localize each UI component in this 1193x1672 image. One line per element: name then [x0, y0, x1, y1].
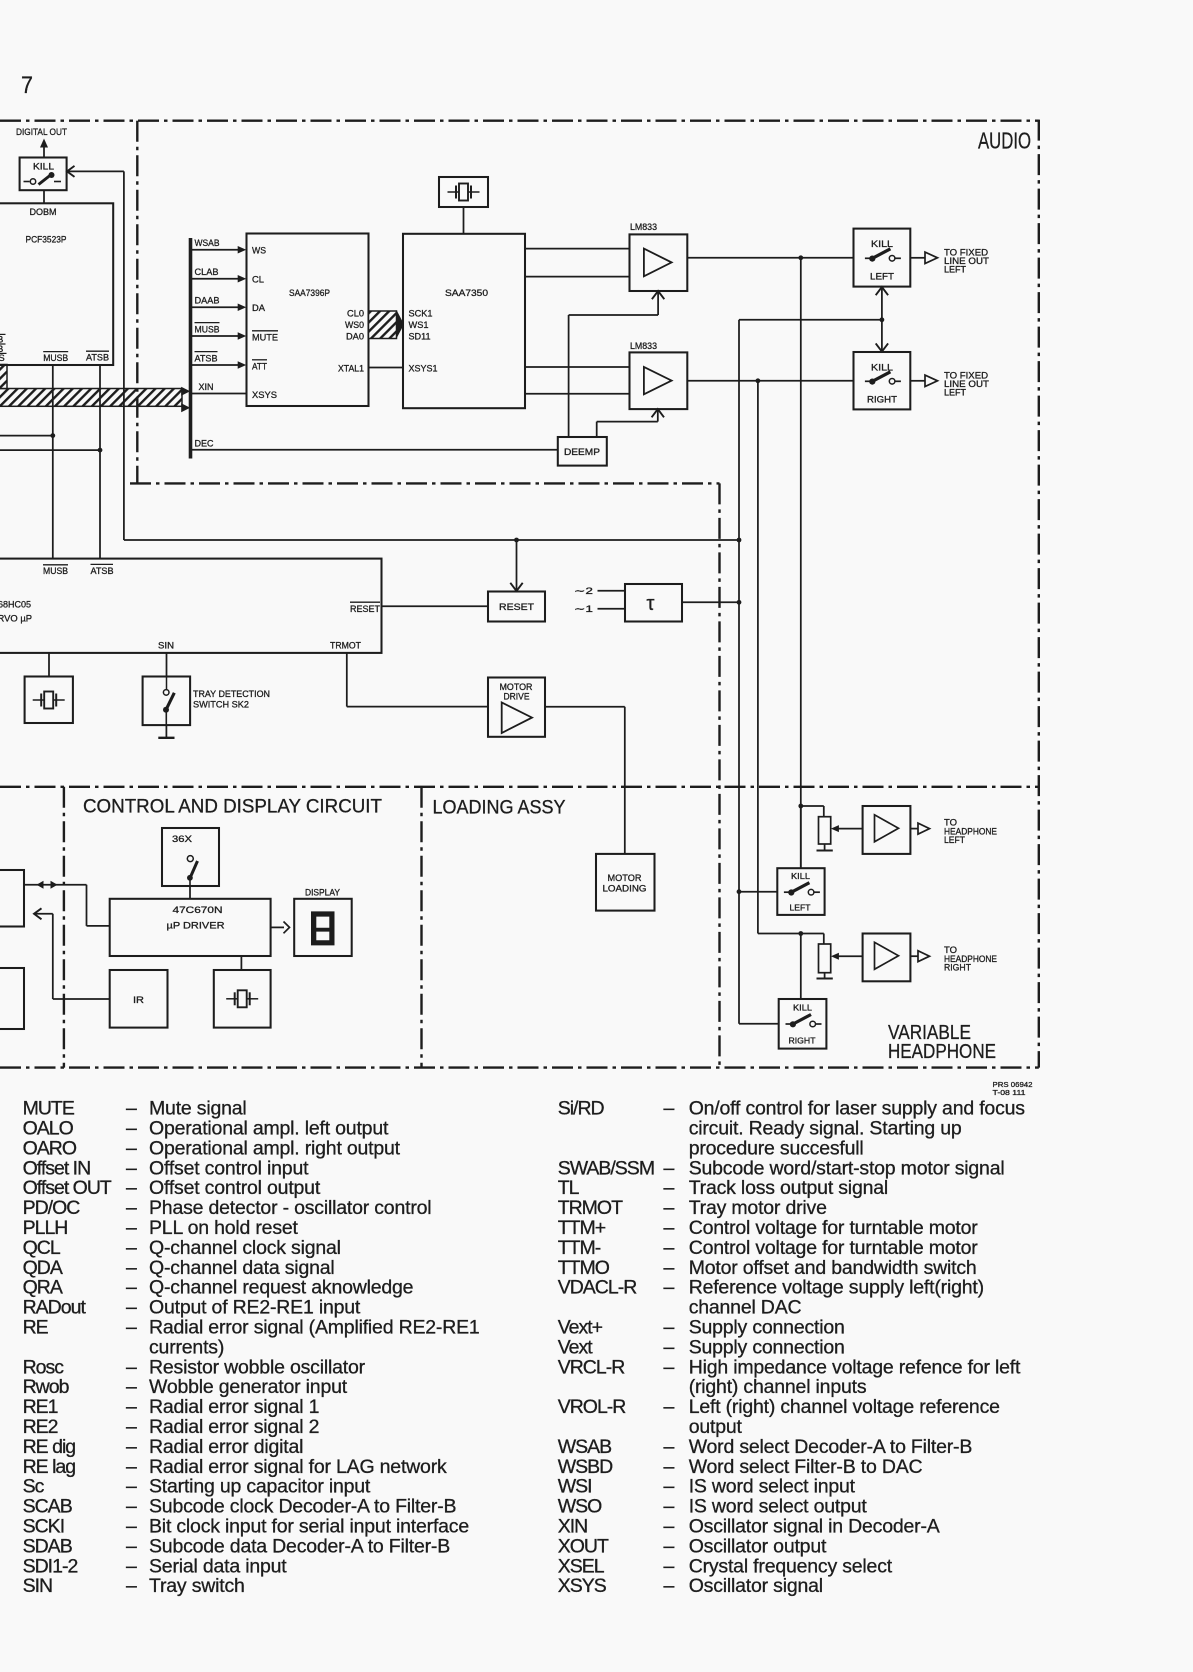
svg-text:∼2: ∼2 — [574, 586, 593, 597]
junction MUSB stub — [50, 433, 55, 438]
wire XTAL1 to XSYS1 — [369, 367, 404, 369]
svg-text:Reference voltage supply left(: Reference voltage supply left(right) — [689, 1277, 984, 1299]
section border AUDIO left vertical — [136, 121, 138, 484]
svg-text:CL0: CL0 — [347, 308, 364, 319]
wire to servo crystal — [48, 653, 50, 677]
junction left line to headphone — [798, 255, 803, 260]
svg-text:Starting up capacitor input: Starting up capacitor input — [149, 1476, 371, 1498]
svg-text:LM833: LM833 — [630, 222, 657, 233]
svg-text:(right) channel inputs: (right) channel inputs — [689, 1376, 867, 1398]
svg-text:Subcode clock Decoder-A to Fil: Subcode clock Decoder-A to Filter-B — [149, 1496, 456, 1518]
svg-text:VROL-R: VROL-R — [558, 1396, 627, 1418]
svg-text:LEFT: LEFT — [790, 903, 811, 913]
svg-text:RIGHT: RIGHT — [789, 1036, 816, 1046]
wire WSAB into SAA7396P — [192, 249, 240, 251]
svg-text:SDI1-2: SDI1-2 — [23, 1555, 78, 1577]
svg-text:QDA: QDA — [23, 1257, 63, 1279]
svg-text:SCK1: SCK1 — [409, 308, 433, 319]
block DEEMP de-emphasis — [558, 437, 607, 466]
svg-text:Q-channel data signal: Q-channel data signal — [149, 1257, 335, 1279]
junction kill link — [880, 317, 885, 322]
svg-text:–: – — [664, 1157, 675, 1179]
svg-text:XSYS: XSYS — [252, 390, 277, 401]
svg-text:–: – — [664, 1237, 675, 1259]
switch KILL RIGHT headphone — [800, 934, 802, 1000]
wire deemp control to left amp — [568, 315, 570, 437]
switch KILL RIGHT fixed line out — [854, 352, 911, 409]
seven-segment digit 8 — [311, 911, 335, 945]
bus arrowheads into XIN line — [181, 387, 190, 396]
svg-text:XIN: XIN — [558, 1516, 588, 1538]
block MOTOR LOADING — [596, 854, 655, 911]
wire reset control horizontal — [124, 539, 739, 541]
wire IR to keyboard with arrow — [34, 908, 42, 919]
wire DAC right out 2 — [525, 393, 630, 395]
svg-text:–: – — [126, 1376, 137, 1398]
svg-text:–: – — [664, 1098, 675, 1120]
bus hatched horizontal (decoder data) — [0, 389, 182, 407]
svg-text:SIN: SIN — [23, 1575, 53, 1597]
svg-text:–: – — [126, 1516, 137, 1538]
svg-text:–: – — [126, 1436, 137, 1458]
svg-text:SAA7396P: SAA7396P — [289, 288, 330, 299]
svg-text:Left (right) channel voltage r: Left (right) channel voltage reference — [689, 1396, 1000, 1418]
wire ATSB vertical — [99, 365, 101, 559]
switch KILL digital out — [20, 158, 67, 191]
svg-text:XSYS: XSYS — [558, 1575, 607, 1597]
svg-text:RESET: RESET — [350, 604, 380, 615]
chip PCF3523P — [0, 203, 113, 365]
wire vertical A into KILL LEFT headphone — [737, 889, 742, 894]
svg-text:Tray motor drive: Tray motor drive — [689, 1197, 827, 1219]
svg-text:Offset OUT: Offset OUT — [23, 1177, 112, 1199]
svg-text:XSYS1: XSYS1 — [409, 363, 438, 374]
svg-text:RE1: RE1 — [23, 1396, 58, 1418]
svg-text:–: – — [126, 1496, 137, 1518]
svg-text:–: – — [126, 1098, 137, 1120]
svg-text:CLAB: CLAB — [195, 267, 219, 278]
wire crystal to SAA7350 — [463, 207, 465, 234]
wire ATSB into SAA7396P — [192, 364, 240, 366]
svg-text:–: – — [126, 1535, 137, 1557]
svg-text:XIN: XIN — [199, 382, 214, 393]
svg-text:LEFT: LEFT — [944, 388, 966, 398]
mechanical link dashed (ganged pots) — [846, 829, 848, 957]
bus hatched SAA7396P to SAA7350 — [369, 311, 397, 339]
svg-text:–: – — [126, 1575, 137, 1597]
svg-text:Radial error signal 1: Radial error signal 1 — [149, 1396, 319, 1418]
svg-text:CONTROL AND DISPLAY CIRCUIT: CONTROL AND DISPLAY CIRCUIT — [83, 796, 382, 818]
svg-text:Rwob: Rwob — [23, 1376, 70, 1398]
svg-text:Radial error signal (Amplified: Radial error signal (Amplified RE2-RE1 — [149, 1317, 480, 1339]
svg-text:TTMO: TTMO — [558, 1257, 610, 1279]
svg-text:–: – — [664, 1535, 675, 1557]
svg-text:MOTOR: MOTOR — [500, 682, 533, 692]
svg-text:Bit clock input for serial inp: Bit clock input for serial input interfa… — [149, 1516, 469, 1538]
svg-text:WSAB: WSAB — [195, 238, 220, 249]
svg-text:On/off control for laser suppl: On/off control for laser supply and focu… — [689, 1098, 1026, 1120]
wire servo RESET to reset box — [382, 605, 489, 607]
svg-text:Oscillator signal in Decoder-A: Oscillator signal in Decoder-A — [689, 1516, 940, 1538]
svg-text:Word select Filter-B to DAC: Word select Filter-B to DAC — [689, 1456, 923, 1478]
svg-text:SAA7350: SAA7350 — [445, 288, 488, 299]
svg-text:SCKI: SCKI — [23, 1516, 65, 1538]
svg-text:RE: RE — [23, 1317, 49, 1339]
wire TRMOT to motor drive — [346, 653, 348, 707]
svg-text:–: – — [126, 1137, 137, 1159]
svg-text:LEFT: LEFT — [870, 272, 894, 283]
svg-text:–: – — [664, 1177, 675, 1199]
svg-text:Vext+: Vext+ — [558, 1317, 603, 1339]
ground tray switch — [165, 725, 167, 738]
svg-text:Mute signal: Mute signal — [149, 1098, 247, 1120]
svg-text:DISPLAY: DISPLAY — [305, 887, 341, 898]
svg-text:DEEMP: DEEMP — [564, 447, 600, 457]
wire kill control vertical — [123, 171, 125, 540]
junction ATSB stub — [98, 448, 103, 453]
svg-text:MUSB: MUSB — [43, 353, 68, 364]
svg-text:LEFT: LEFT — [944, 265, 966, 275]
svg-text:–: – — [126, 1416, 137, 1438]
svg-text:currents): currents) — [149, 1336, 224, 1358]
svg-text:–: – — [664, 1356, 675, 1378]
svg-text:IR: IR — [133, 995, 144, 1006]
svg-text:DEC: DEC — [195, 439, 214, 450]
wire DAAB into SAA7396P — [192, 306, 240, 308]
wire to pot right — [823, 934, 825, 945]
op-amp headphone right — [863, 934, 911, 982]
svg-text:–: – — [126, 1277, 137, 1299]
svg-text:µP DRIVER: µP DRIVER — [167, 921, 225, 932]
svg-text:–: – — [664, 1277, 675, 1299]
svg-text:DIGITAL OUT: DIGITAL OUT — [16, 127, 67, 138]
wire motor drive to motor loading — [545, 706, 625, 708]
bus hatched stub up to PCF3523P — [0, 365, 7, 389]
svg-text:Subcode data Decoder-A to Filt: Subcode data Decoder-A to Filter-B — [149, 1535, 450, 1557]
svg-text:TRMOT: TRMOT — [330, 641, 361, 652]
wire KILL to PCF3523P DOBM — [43, 190, 45, 203]
wire arrow into RESET box — [516, 540, 518, 591]
svg-text:SD11: SD11 — [409, 332, 431, 343]
wire deemp control to right amp — [596, 422, 598, 437]
svg-text:SWITCH SK2: SWITCH SK2 — [193, 700, 249, 711]
svg-text:WS1: WS1 — [409, 320, 429, 331]
wire link between KILL LEFT and KILL RIGHT — [881, 287, 883, 352]
svg-text:ATT: ATT — [252, 361, 267, 372]
block keyboard (clipped at page edge, lower) — [0, 968, 24, 1029]
wire DAC right out 1 — [525, 366, 630, 368]
junction reset drop — [514, 538, 519, 543]
svg-text:Operational ampl. left output: Operational ampl. left output — [149, 1118, 389, 1140]
svg-text:Control voltage for turntable: Control voltage for turntable motor — [689, 1237, 979, 1259]
switch 36X — [162, 828, 219, 886]
svg-text:Operational ampl. right output: Operational ampl. right output — [149, 1137, 401, 1159]
svg-text:RE dig: RE dig — [23, 1436, 76, 1458]
svg-text:XTAL1: XTAL1 — [338, 363, 364, 374]
svg-text:–: – — [126, 1177, 137, 1199]
svg-text:WSBD: WSBD — [558, 1456, 613, 1478]
resistor pot right — [819, 944, 831, 973]
svg-text:∼1: ∼1 — [574, 604, 593, 615]
svg-text:47C670N: 47C670N — [173, 905, 223, 916]
svg-text:Serial data input: Serial data input — [149, 1555, 287, 1577]
wire kill link to headphone control vertical — [739, 319, 882, 321]
svg-text:AS: AS — [0, 353, 5, 364]
wire uP driver to control crystal — [240, 956, 242, 970]
svg-text:QCL: QCL — [23, 1237, 61, 1259]
svg-text:RESET: RESET — [499, 602, 535, 612]
svg-text:Si/RD: Si/RD — [558, 1098, 605, 1120]
junction headphone left feed — [798, 804, 803, 809]
svg-text:–: – — [664, 1336, 675, 1358]
svg-text:LM833: LM833 — [630, 341, 657, 352]
op-amp headphone left — [863, 806, 911, 854]
svg-text:–: – — [126, 1356, 137, 1378]
svg-text:–: – — [126, 1257, 137, 1279]
svg-text:Word select Decoder-A to Filte: Word select Decoder-A to Filter-B — [689, 1436, 972, 1458]
svg-text:Output of RE2-RE1 input: Output of RE2-RE1 input — [149, 1297, 361, 1319]
svg-text:output: output — [689, 1416, 743, 1438]
wire stub left to ATSB — [0, 449, 100, 451]
svg-text:–: – — [664, 1575, 675, 1597]
svg-text:RIGHT: RIGHT — [867, 395, 897, 406]
svg-text:–: – — [664, 1317, 675, 1339]
svg-text:WSI: WSI — [558, 1476, 592, 1498]
svg-text:procedure succesfull: procedure succesfull — [689, 1137, 864, 1159]
svg-text:MOTOR: MOTOR — [608, 873, 642, 883]
section border bottom horizontal — [0, 1066, 1039, 1068]
svg-text:–: – — [126, 1476, 137, 1498]
wire DEC to DEEMP — [192, 449, 558, 451]
crystal X1 above SAA7350 — [439, 177, 488, 207]
chip SAA7350 DAC — [403, 234, 525, 408]
svg-text:ATSB: ATSB — [86, 353, 109, 364]
legend left column — [23, 1098, 480, 1598]
bus collector bold vertical line — [189, 238, 193, 459]
svg-text:DA0: DA0 — [346, 332, 364, 343]
svg-text:–: – — [664, 1436, 675, 1458]
svg-text:PLL on hold reset: PLL on hold reset — [149, 1217, 299, 1239]
svg-text:circuit. Ready signal. Startin: circuit. Ready signal. Starting up — [689, 1118, 962, 1140]
svg-text:–: – — [126, 1297, 137, 1319]
svg-text:–: – — [664, 1257, 675, 1279]
output arrow to headphone left — [910, 828, 917, 830]
svg-text:SERVO µP: SERVO µP — [0, 614, 32, 625]
svg-text:Supply connection: Supply connection — [689, 1317, 845, 1339]
svg-text:–: – — [664, 1516, 675, 1538]
svg-text:ATSB: ATSB — [91, 566, 114, 577]
svg-text:–: – — [664, 1476, 675, 1498]
wire MUSB vertical — [52, 365, 54, 559]
svg-text:68HC05: 68HC05 — [0, 600, 31, 611]
svg-text:–: – — [664, 1197, 675, 1219]
svg-text:ATSB: ATSB — [195, 353, 218, 364]
svg-text:XOUT: XOUT — [558, 1535, 609, 1557]
svg-text:Supply connection: Supply connection — [689, 1336, 845, 1358]
svg-text:Q-channel request aknowledge: Q-channel request aknowledge — [149, 1277, 413, 1299]
block IR receiver — [110, 970, 168, 1028]
wire MUSB into SAA7396P — [192, 335, 240, 337]
wire 36X to uP driver — [189, 886, 191, 899]
resistor pot left — [819, 817, 831, 844]
wire DAC left out 1 — [525, 248, 630, 250]
section border vertical between CONTROL and LOADING ASSY — [420, 787, 422, 1068]
svg-text:Subcode word/start-stop motor: Subcode word/start-stop motor signal — [689, 1157, 1005, 1179]
svg-text:Control voltage for turntable: Control voltage for turntable motor — [689, 1217, 979, 1239]
svg-text:–: – — [126, 1555, 137, 1577]
svg-text:–: – — [664, 1456, 675, 1478]
svg-text:CL: CL — [252, 274, 264, 285]
svg-text:KILL: KILL — [793, 1003, 812, 1013]
svg-text:Phase detector - oscillator co: Phase detector - oscillator control — [149, 1197, 431, 1219]
wire digital out arrow — [43, 147, 45, 158]
svg-text:KILL: KILL — [33, 162, 54, 172]
wire DAC left out 2 — [525, 276, 630, 278]
wire control vertical A x=739 — [738, 320, 740, 1024]
svg-text:TRMOT: TRMOT — [558, 1197, 623, 1219]
svg-text:WSAB: WSAB — [558, 1436, 611, 1458]
svg-text:MUTE: MUTE — [23, 1098, 75, 1120]
wire vertical A into KILL RIGHT headphone — [739, 1023, 779, 1025]
svg-text:Offset control output: Offset control output — [149, 1177, 321, 1199]
wire vertical B to right pot row — [758, 933, 824, 935]
output arrow to fixed line out right — [910, 380, 924, 382]
wire KILL feedback from control line — [67, 166, 75, 177]
ground pot left — [824, 844, 826, 850]
block keyboard (clipped at page edge, upper) — [0, 870, 24, 927]
svg-text:WS0: WS0 — [345, 320, 364, 331]
svg-text:RE2: RE2 — [23, 1416, 58, 1438]
svg-text:DAAB: DAAB — [195, 296, 220, 307]
svg-text:Oscillator signal: Oscillator signal — [689, 1575, 823, 1597]
svg-text:PD/OC: PD/OC — [23, 1197, 81, 1219]
svg-text:–: – — [126, 1197, 137, 1219]
svg-text:KILL: KILL — [791, 871, 810, 881]
svg-text:Offset control input: Offset control input — [149, 1157, 309, 1179]
svg-text:RE lag: RE lag — [23, 1456, 76, 1478]
switch KILL LEFT headphone — [800, 806, 802, 868]
svg-text:RADout: RADout — [23, 1297, 87, 1319]
svg-text:Motor offset and bandwidth swi: Motor offset and bandwidth switch — [689, 1257, 977, 1279]
section border horizontal above CONTROL AND DISPLAY CIRCUIT — [0, 786, 1039, 788]
wire right amp to KILL RIGHT — [687, 380, 853, 382]
svg-text:–: – — [126, 1456, 137, 1478]
svg-text:Crystal frequency select: Crystal frequency select — [689, 1555, 893, 1577]
svg-text:Vext: Vext — [558, 1336, 594, 1358]
svg-text:–: – — [126, 1317, 137, 1339]
svg-text:TRAY DETECTION: TRAY DETECTION — [193, 689, 270, 700]
svg-text:Oscillator output: Oscillator output — [689, 1535, 827, 1557]
svg-text:PLLH: PLLH — [23, 1217, 68, 1239]
wire XIN / XSYS into SAA7396P — [192, 393, 247, 395]
section border right vertical AUDIO — [1038, 120, 1040, 1068]
svg-text:VDACL-R: VDACL-R — [558, 1277, 638, 1299]
svg-text:–: – — [664, 1555, 675, 1577]
svg-text:SWAB/SSM: SWAB/SSM — [558, 1157, 654, 1179]
svg-text:Track loss output signal: Track loss output signal — [689, 1177, 888, 1199]
chip 47C670N uP driver — [110, 899, 271, 956]
output arrow to fixed line out left — [910, 257, 924, 259]
section border vertical between LOADING ASSY and VARIABLE HEADPHONE — [718, 483, 720, 1067]
svg-text:–: – — [126, 1157, 137, 1179]
svg-text:RIGHT: RIGHT — [944, 963, 971, 973]
block tau delay — [625, 584, 682, 622]
svg-text:SIN: SIN — [158, 641, 174, 652]
output arrow to headphone right — [910, 955, 917, 957]
section border CONTROL left vertical — [63, 787, 65, 1068]
chip SAA7396P digital filter — [247, 234, 369, 407]
svg-text:TTM-: TTM- — [558, 1237, 601, 1259]
wire keyboard bidirectional to uP — [24, 884, 87, 886]
svg-text:Offset IN: Offset IN — [23, 1157, 91, 1179]
svg-text:SDAB: SDAB — [23, 1535, 72, 1557]
svg-text:High impedance voltage refence: High impedance voltage refence for left — [689, 1356, 1021, 1378]
crystal X3 control — [214, 970, 271, 1028]
junction right line to headphone — [756, 378, 761, 383]
svg-text:MUSB: MUSB — [195, 324, 220, 335]
junction right headphone feed — [798, 931, 803, 936]
wire uP driver to display with arrow — [271, 926, 284, 928]
svg-text:WS: WS — [252, 246, 266, 257]
block MOTOR DRIVE amplifier — [488, 678, 545, 737]
svg-text:Resistor wobble oscillator: Resistor wobble oscillator — [149, 1356, 366, 1378]
svg-text:IS word select output: IS word select output — [689, 1496, 868, 1518]
svg-text:HEADPHONE: HEADPHONE — [888, 1040, 996, 1063]
section border AUDIO bottom horizontal — [130, 482, 720, 484]
svg-text:T-08 111: T-08 111 — [993, 1088, 1026, 1097]
svg-text:–: – — [664, 1496, 675, 1518]
svg-text:LOADING: LOADING — [603, 884, 647, 894]
svg-text:MUTE: MUTE — [252, 332, 278, 343]
svg-text:Sc: Sc — [23, 1476, 45, 1498]
switch KILL LEFT fixed line out — [854, 229, 911, 287]
ground pot right — [824, 973, 826, 979]
wire stub left to MUSB — [0, 435, 53, 437]
wire to pot left — [801, 805, 824, 807]
svg-text:–: – — [664, 1396, 675, 1418]
svg-text:DRIVE: DRIVE — [504, 691, 530, 701]
svg-text:36X: 36X — [172, 834, 192, 844]
wire left amp to KILL LEFT — [687, 257, 853, 259]
svg-text:–: – — [126, 1217, 137, 1239]
crystal X2 servo — [25, 677, 73, 724]
wire SIN to tray switch — [166, 653, 168, 677]
svg-text:Radial error digital: Radial error digital — [149, 1436, 303, 1458]
wire control vertical C x=801 — [800, 258, 802, 868]
svg-text:Radial error signal for LAG ne: Radial error signal for LAG network — [149, 1456, 447, 1478]
wire tau out to vertical A — [682, 601, 739, 603]
svg-text:AUDIO: AUDIO — [978, 128, 1031, 154]
svg-text:DOBM: DOBM — [30, 207, 57, 217]
svg-text:–: – — [126, 1237, 137, 1259]
wire CLAB into SAA7396P — [192, 278, 240, 280]
svg-text:MUSB: MUSB — [43, 566, 68, 577]
section border top horizontal — [0, 119, 1039, 121]
svg-text:IS word select input: IS word select input — [689, 1476, 856, 1498]
legend right column — [558, 1098, 1026, 1598]
svg-text:WSO: WSO — [558, 1496, 602, 1518]
wiper arrow left pot — [837, 828, 863, 830]
svg-text:TL: TL — [558, 1177, 580, 1199]
switch SK2 tray detection — [143, 677, 191, 726]
svg-text:Tray switch: Tray switch — [149, 1575, 245, 1597]
svg-text:LEFT: LEFT — [944, 835, 965, 845]
svg-text:Radial error signal 2: Radial error signal 2 — [149, 1416, 319, 1438]
svg-text:OARO: OARO — [23, 1137, 77, 1159]
svg-text:Wobble generator input: Wobble generator input — [149, 1376, 348, 1398]
svg-text:XSEL: XSEL — [558, 1555, 605, 1577]
svg-text:PCF3523P: PCF3523P — [26, 235, 67, 246]
